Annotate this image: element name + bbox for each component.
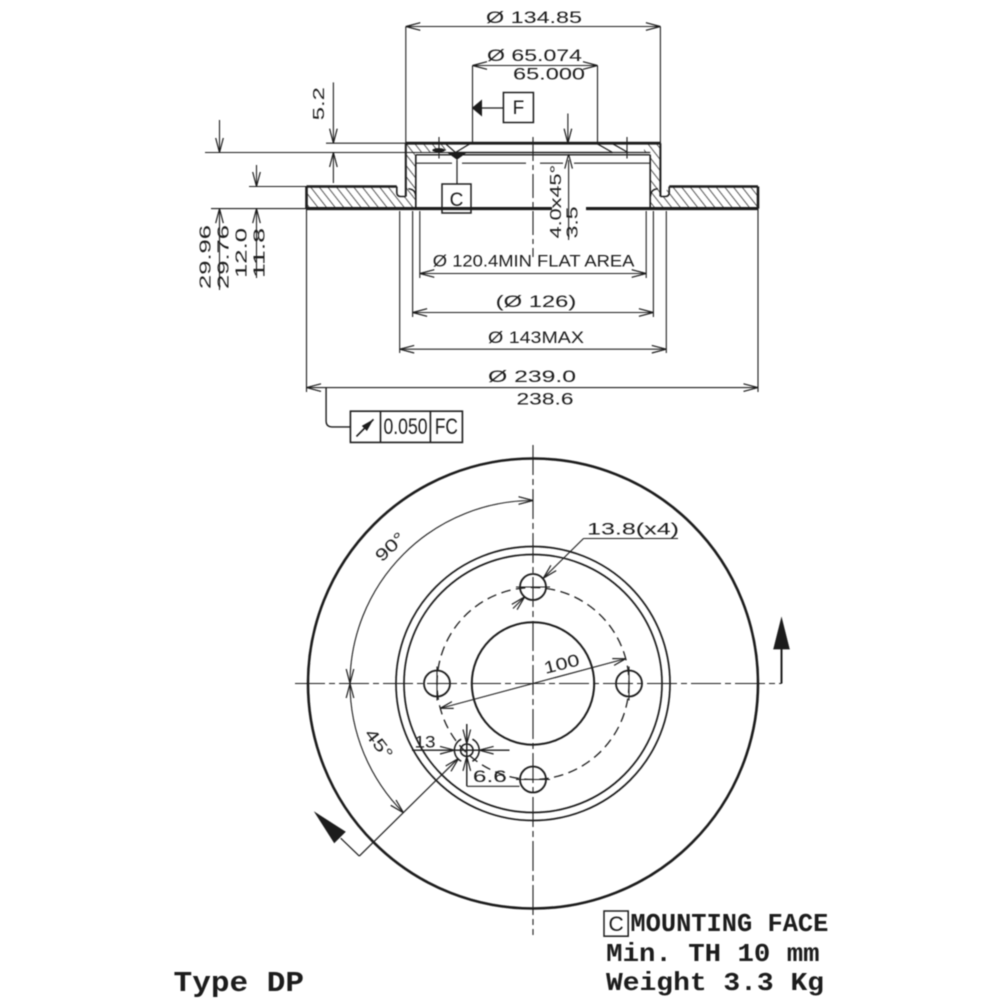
svg-text:29.96: 29.96: [198, 225, 215, 289]
svg-text:Ø 143MAX: Ø 143MAX: [488, 328, 584, 347]
svg-text:Ø 120.4MIN FLAT AREA: Ø 120.4MIN FLAT AREA: [433, 252, 635, 271]
svg-text:(Ø 126): (Ø 126): [496, 292, 577, 311]
svg-text:3.5: 3.5: [565, 206, 582, 238]
svg-text:4.0x45°: 4.0x45°: [548, 165, 565, 239]
svg-text:6.6: 6.6: [473, 767, 507, 786]
svg-text:Ø 134.85: Ø 134.85: [486, 8, 582, 27]
svg-text:FC: FC: [435, 414, 458, 439]
svg-text:13.8(x4): 13.8(x4): [587, 520, 679, 539]
svg-text:65.000: 65.000: [513, 65, 585, 84]
svg-text:Ø 239.0: Ø 239.0: [488, 367, 576, 386]
svg-text:Min. TH 10 mm: Min. TH 10 mm: [606, 939, 819, 969]
svg-text:C: C: [609, 913, 624, 936]
svg-text:Ø 65.074: Ø 65.074: [487, 46, 582, 65]
svg-text:29.76: 29.76: [216, 225, 233, 289]
svg-text:F: F: [513, 98, 525, 119]
svg-text:C: C: [450, 190, 464, 211]
svg-text:11.8: 11.8: [252, 228, 269, 278]
svg-text:Type DP: Type DP: [174, 967, 305, 1000]
svg-text:238.6: 238.6: [517, 390, 574, 409]
svg-text:0.050: 0.050: [384, 414, 428, 439]
svg-text:5.2: 5.2: [311, 87, 328, 120]
svg-text:Weight 3.3 Kg: Weight 3.3 Kg: [606, 968, 824, 998]
svg-text:12.0: 12.0: [234, 228, 251, 278]
svg-text:13: 13: [415, 732, 436, 751]
svg-text:MOUNTING FACE: MOUNTING FACE: [630, 909, 828, 939]
